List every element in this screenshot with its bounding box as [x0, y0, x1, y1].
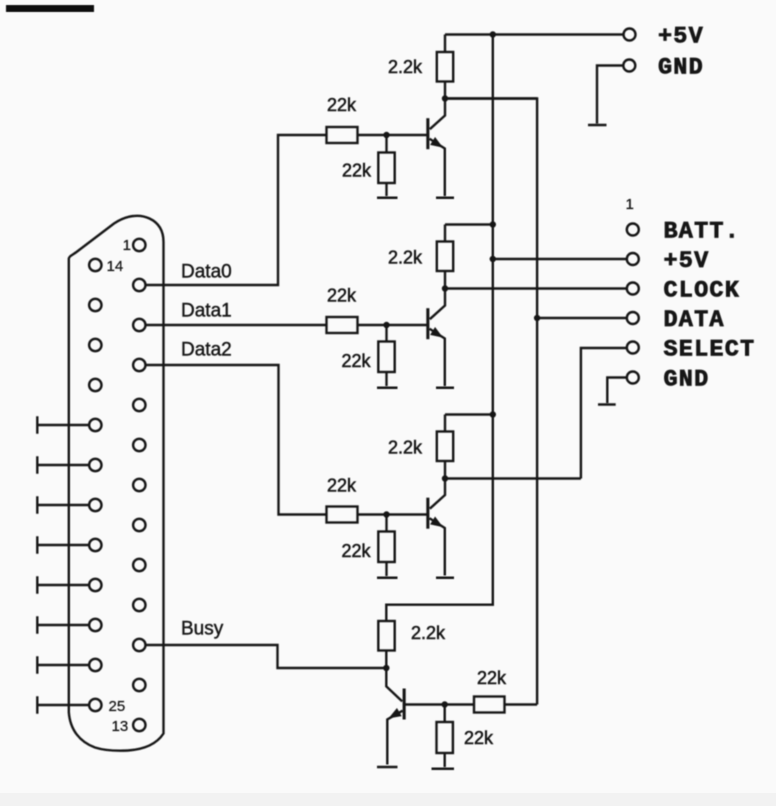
- svg-text:GND: GND: [658, 54, 704, 81]
- node Q4 collector / Busy: [383, 665, 389, 671]
- terminal +5V: [627, 253, 639, 265]
- resistor R10 2.2k stage4 pullup: [378, 621, 394, 651]
- ground Q2 emitter: [436, 387, 454, 390]
- node Q4 base: [442, 701, 448, 707]
- +5V top rail wire: [445, 33, 623, 35]
- connector J1 DB25 outline: [69, 216, 164, 751]
- wire GND lower to ground: [607, 378, 626, 404]
- svg-text:BATT.: BATT.: [664, 218, 741, 245]
- ground stub wire pin 22: [37, 576, 89, 593]
- ground Q4 emitter: [377, 766, 398, 769]
- connector pin 7: [133, 479, 145, 491]
- svg-text:22k: 22k: [327, 286, 357, 306]
- svg-text:Data2: Data2: [181, 340, 232, 361]
- wire Data1 from pin 3 to stage 2 base network: [146, 324, 327, 326]
- transistor Q4: [403, 689, 406, 720]
- ground symbol top: [588, 124, 607, 127]
- ground stub wire pin 25: [37, 696, 89, 713]
- connector pin 1: [133, 239, 145, 251]
- svg-text:22k: 22k: [464, 728, 494, 748]
- resistor R2 22k series stage1: [327, 127, 358, 143]
- connector pin 10: [133, 599, 145, 611]
- wire SELECT vertical: [581, 348, 627, 479]
- wire Q2 collector to CLOCK terminal: [445, 287, 627, 289]
- wire +5V terminal to rail A: [493, 258, 627, 260]
- svg-text:22k: 22k: [327, 95, 357, 115]
- svg-text:SELECT: SELECT: [664, 336, 756, 363]
- transistor Q2: [426, 308, 429, 339]
- ground stub wire pin 23: [37, 616, 89, 633]
- connector pin 23: [89, 619, 101, 631]
- connector pin 11: [133, 639, 145, 651]
- stage 2 +5V tap wire: [445, 223, 493, 225]
- node Q3 base: [383, 511, 389, 517]
- ground Q3 emitter: [436, 577, 454, 580]
- svg-text:2.2k: 2.2k: [388, 438, 423, 458]
- connector pin 16: [89, 339, 101, 351]
- resistor R7 2.2k stage3: [444, 415, 446, 432]
- node DATA line: [534, 315, 540, 321]
- svg-text:22k: 22k: [477, 668, 507, 688]
- svg-text:2.2k: 2.2k: [388, 57, 423, 77]
- wire GND top to ground: [597, 66, 623, 124]
- connector pin 4: [133, 359, 145, 371]
- node stage3 supply tap: [490, 411, 496, 417]
- connector pin 5: [133, 399, 145, 411]
- svg-text:2.2k: 2.2k: [388, 248, 423, 268]
- terminal GND lower: [627, 372, 639, 384]
- transistor Q3: [426, 498, 429, 529]
- page artifact bottom band: [0, 793, 776, 806]
- ground symbol lower right: [598, 403, 616, 406]
- node Q2 collector: [442, 285, 448, 291]
- node stage2 supply tap: [490, 221, 496, 227]
- svg-text:1: 1: [626, 196, 634, 213]
- vertical line B from Q1 collector to DATA and Q4 base resistor: [445, 99, 537, 705]
- svg-text:2.2k: 2.2k: [411, 623, 446, 643]
- ground Q1 emitter: [436, 197, 454, 200]
- resistor R8 22k series stage3: [327, 507, 358, 523]
- svg-text:GND: GND: [664, 366, 710, 393]
- terminal BATT.: [627, 224, 639, 236]
- connector pin 19: [89, 459, 101, 471]
- node Q3 collector: [442, 475, 448, 481]
- terminal CLOCK: [627, 283, 639, 295]
- svg-text:22k: 22k: [342, 161, 372, 181]
- connector pin 8: [133, 519, 145, 531]
- stage 3 +5V tap wire: [445, 413, 493, 415]
- connector pin 13: [133, 719, 145, 731]
- connector pin 6: [133, 439, 145, 451]
- node Q2 base: [383, 322, 389, 328]
- svg-text:+5V: +5V: [658, 23, 704, 50]
- connector pin 24: [89, 659, 101, 671]
- resistor R5 22k series stage2: [327, 317, 358, 333]
- svg-text:Data1: Data1: [181, 301, 232, 322]
- svg-text:Data0: Data0: [181, 262, 232, 283]
- terminal +5V top: [624, 29, 636, 41]
- resistor R1 2.2k stage1: [444, 35, 446, 53]
- connector pin 3: [133, 319, 145, 331]
- connector pin 17: [89, 379, 101, 391]
- svg-text:Busy: Busy: [181, 619, 224, 640]
- wire Busy from pin 11 to Q4 collector node: [146, 645, 386, 668]
- wire Q4 base: [405, 703, 474, 705]
- terminal GND top: [623, 60, 635, 72]
- ground stage1 pulldown: [377, 197, 398, 200]
- wire Q1 collector to line B: [445, 97, 537, 99]
- page artifact top-left dark line: [6, 5, 94, 12]
- svg-text:25: 25: [109, 698, 126, 715]
- node Q1 base: [383, 132, 389, 138]
- +5V vertical rail A: [386, 35, 493, 622]
- ground R12: [432, 768, 455, 771]
- resistor R11 22k Q4 base series: [474, 697, 505, 713]
- resistor R6 22k pulldown stage2: [385, 325, 387, 342]
- node +5V terminal feed: [490, 256, 496, 262]
- svg-text:CLOCK: CLOCK: [664, 277, 741, 304]
- resistor R3 22k pulldown stage1: [385, 135, 387, 153]
- svg-text:22k: 22k: [342, 351, 372, 371]
- connector pin 20: [89, 499, 101, 511]
- wire Q3 collector to SELECT line: [445, 477, 581, 479]
- resistor R12 22k Q4 base pulldown: [444, 705, 446, 723]
- node Q1 collector: [442, 95, 448, 101]
- resistor R9 22k pulldown stage3: [385, 515, 387, 532]
- svg-text:22k: 22k: [342, 541, 372, 561]
- connector pin 21: [89, 539, 101, 551]
- connector pin 9: [133, 559, 145, 571]
- connector pin 14: [89, 259, 101, 271]
- node +5V rail top: [490, 31, 496, 37]
- terminal SELECT: [627, 342, 639, 354]
- svg-text:13: 13: [112, 718, 129, 735]
- connector pin 2: [133, 279, 145, 291]
- wire DATA terminal to line B: [537, 317, 627, 319]
- ground stage2 pulldown: [377, 387, 398, 390]
- ground stub wire pin 24: [37, 656, 89, 673]
- svg-text:22k: 22k: [327, 476, 357, 496]
- ground stub wire pin 21: [37, 536, 89, 553]
- ground stub wire pin 19: [37, 456, 89, 473]
- connector pin 18: [89, 419, 101, 431]
- svg-text:1: 1: [123, 237, 131, 254]
- resistor R4 2.2k stage2: [444, 225, 446, 242]
- connector pin 22: [89, 579, 101, 591]
- ground stub wire pin 18: [37, 416, 89, 433]
- svg-text:+5V: +5V: [664, 248, 710, 275]
- svg-text:14: 14: [107, 258, 124, 275]
- ground stage3 pulldown: [377, 577, 398, 580]
- svg-text:DATA: DATA: [664, 307, 725, 334]
- wire Data0 from pin 2 to stage 1 base network: [146, 135, 327, 285]
- transistor Q1: [426, 118, 429, 149]
- ground stub wire pin 20: [37, 496, 89, 513]
- connector pin 15: [89, 299, 101, 311]
- wire Data2 from pin 4 to stage 3 base network: [146, 365, 327, 515]
- connector pin 12: [133, 679, 145, 691]
- connector pin 25: [89, 699, 101, 711]
- terminal DATA: [627, 312, 639, 324]
